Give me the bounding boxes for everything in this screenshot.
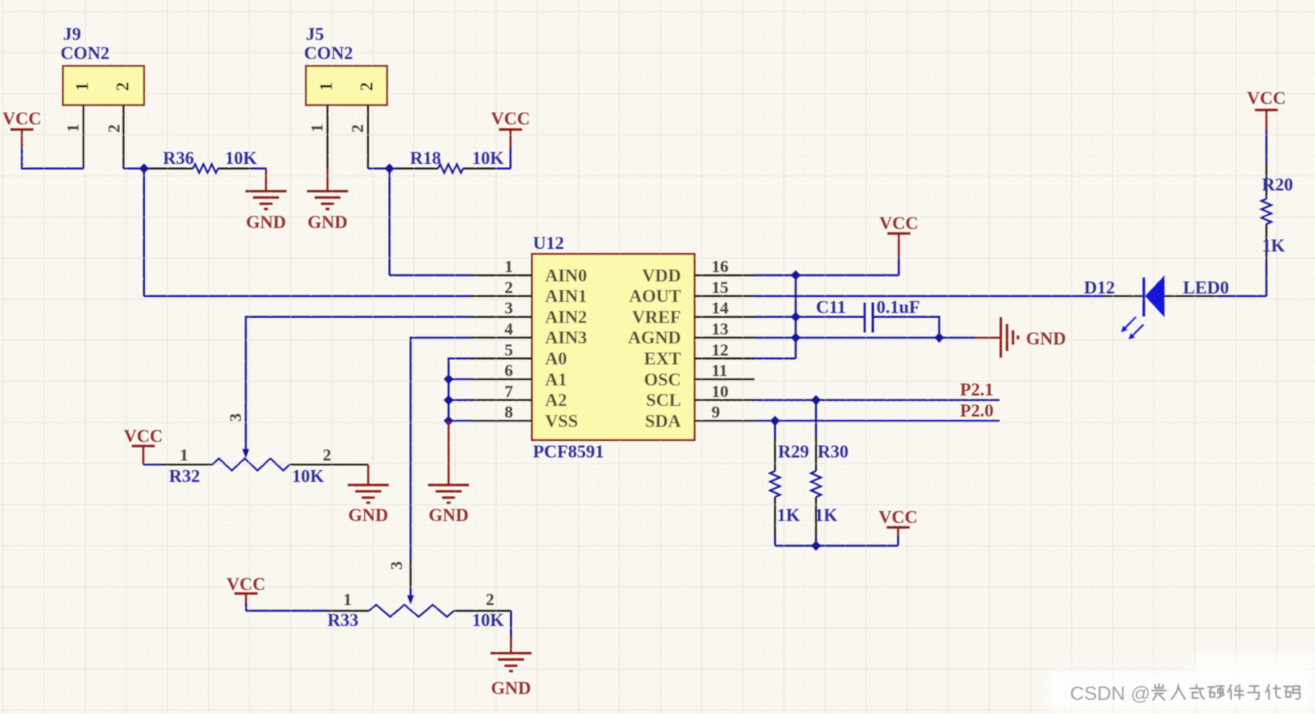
resistor R18 lead left [390,168,397,170]
svg-text:CON2: CON2 [304,43,353,63]
U12 pin 8 (VSS) [472,420,533,422]
svg-text:12: 12 [712,340,729,359]
U12 pin 9 (SDA) [695,420,755,422]
svg-text:R18: R18 [410,148,441,168]
svg-text:10K: 10K [225,148,257,168]
R33 lead left [246,610,328,612]
U12 pin 14 (VREF) [695,316,755,318]
svg-text:GND: GND [348,505,388,525]
LED light arrow 2 [1132,325,1144,337]
svg-text:SDA: SDA [645,411,681,431]
wire pullup rail [775,545,898,547]
svg-text:A0: A0 [545,349,567,369]
wire junction down to AIN1 row [143,169,145,297]
wire A1 net [449,378,472,380]
svg-text:SCL: SCL [646,390,681,410]
U12 pin 13 (AGND) [695,337,755,339]
connector J9 body [63,66,144,105]
wire AOUT net [755,295,1105,297]
svg-text:11: 11 [712,361,728,380]
wire VSS net [449,420,472,422]
svg-text:VREF: VREF [632,307,681,327]
svg-text:1: 1 [64,124,83,133]
svg-text:9: 9 [712,403,721,422]
svg-text:R20: R20 [1262,174,1293,194]
svg-text:1: 1 [308,124,327,133]
svg-text:1K: 1K [777,505,800,525]
svg-text:5: 5 [505,340,514,359]
svg-text:3: 3 [387,561,406,570]
junction VREF [791,312,801,322]
svg-text:P2.1: P2.1 [960,380,994,400]
power bus vertical wire [795,275,797,358]
wire AIN3 net [411,338,472,560]
svg-text:2: 2 [357,82,377,91]
svg-text:R30: R30 [818,442,849,462]
svg-text:10: 10 [712,382,729,401]
svg-text:PCF8591: PCF8591 [533,442,604,462]
svg-text:AIN2: AIN2 [545,307,587,327]
svg-text:VCC: VCC [491,109,530,129]
power VCC (R18) [510,148,512,169]
svg-text:U12: U12 [533,233,564,253]
svg-text:P2.0: P2.0 [960,400,994,420]
svg-text:10K: 10K [292,466,324,486]
svg-text:13: 13 [712,320,729,339]
LED D12 cathode bar [1143,278,1146,317]
svg-text:AIN3: AIN3 [545,328,587,348]
U12 pin 2 (AIN1) [472,295,533,297]
svg-text:2: 2 [348,124,367,133]
svg-text:0.1uF: 0.1uF [877,297,921,317]
R32 wiper arrowhead [242,449,249,458]
wire AIN1 net [144,295,472,297]
LED D12 triangle [1145,275,1165,317]
U12 pin 3 (AIN2) [472,316,533,318]
U12 pin 5 (A0) [472,358,533,360]
potentiometer R32 [213,459,290,471]
wire VDD net [755,274,899,276]
R33 lead right [454,610,511,612]
ground GND (AGND, rotated) [976,337,1000,339]
U12 pin 6 (A1) [472,378,533,380]
junction at J9 pin2 net [139,164,149,174]
svg-text:1: 1 [343,590,352,609]
J9 pin 2 [123,105,125,169]
resistor R36 [193,164,218,173]
ground GND (R33) [510,611,512,636]
svg-text:VCC: VCC [879,213,918,233]
wire junction down to AIN0 row [389,169,391,276]
wire SDA net [755,420,1000,422]
svg-text:6: 6 [505,361,514,380]
wire C11 to AGND net [874,317,939,338]
junction at J5 pin2 net [385,164,395,174]
wire J5 pin2 to junction [368,168,390,170]
svg-text:OSC: OSC [644,369,681,389]
svg-text:C11: C11 [816,297,846,317]
junction C11/AGND [934,333,944,343]
resistor R18 [438,164,463,173]
U12 pin 15 (AOUT) [695,295,755,297]
svg-text:1K: 1K [815,505,838,525]
wire EXT net [755,358,796,360]
svg-text:GND: GND [246,212,286,232]
R29 lead bottom [774,497,776,537]
svg-text:J9: J9 [63,24,81,44]
svg-text:VSS: VSS [545,411,578,431]
svg-text:4: 4 [505,320,514,339]
svg-text:VCC: VCC [1247,88,1286,108]
J5 pin 1 [327,105,329,169]
U12 pin 4 (AIN3) [472,337,533,339]
U12 pin 11 (OSC) [695,378,755,380]
svg-text:R32: R32 [169,466,200,486]
resistor R20 [1261,199,1271,224]
ground GND (R32) [367,465,369,486]
watermark CJK glyphs [1152,684,1300,700]
resistor R29 [770,471,780,497]
svg-text:A1: A1 [545,369,567,389]
junction VSS [444,416,454,426]
svg-text:CSDN @: CSDN @ [1070,683,1150,705]
svg-text:GND: GND [429,505,469,525]
connector J5 body [306,66,387,105]
R33 wiper pin stub [410,560,412,588]
resistor R30 [811,471,821,497]
resistor R36 lead right [218,168,250,170]
ground GND (A0/A1/A2/VSS) [448,421,450,485]
svg-text:16: 16 [712,257,729,276]
svg-text:VCC: VCC [124,426,163,446]
resistor R36 lead left [144,168,151,170]
svg-text:2: 2 [113,82,133,91]
J5 pin 2 [367,105,369,169]
svg-text:VCC: VCC [879,507,918,527]
svg-text:2: 2 [323,445,332,464]
wire AOUT to LED (pin segment) [1104,295,1143,297]
U12 pin 10 (SCL) [695,399,755,401]
svg-text:A2: A2 [545,390,567,410]
R32 lead right [290,464,369,466]
svg-text:GND: GND [308,212,348,232]
svg-text:CON2: CON2 [61,43,110,63]
svg-text:2: 2 [105,124,124,133]
svg-text:2: 2 [486,590,495,609]
svg-text:AIN1: AIN1 [545,286,587,306]
R20 lead top [1265,131,1267,164]
junction A2 [444,395,454,405]
U12 pin 1 (AIN0) [472,274,533,276]
LED light arrow 1 [1124,317,1136,329]
svg-text:AIN0: AIN0 [545,265,587,285]
wire VREF net [755,316,865,318]
svg-text:1: 1 [505,257,514,276]
ground GND (J5 pin1) [327,169,329,192]
svg-text:GND: GND [491,678,531,698]
IC U12 body [532,254,695,440]
U12 pin 12 (EXT) [695,358,755,360]
wire VCC to J9 pin1 [22,148,84,169]
wire AGND net [755,337,977,339]
svg-text:8: 8 [505,403,514,422]
svg-text:1K: 1K [1262,235,1285,255]
wire A2 net [449,399,472,401]
junction SCL/R30 [811,395,821,405]
R33 wiper arrowhead [407,595,414,604]
svg-text:1: 1 [180,445,189,464]
R29 lead top [774,421,776,437]
svg-text:EXT: EXT [644,349,681,369]
junction A1 [444,374,454,384]
svg-text:15: 15 [712,278,729,297]
U12 pin 16 (VDD) [695,274,755,276]
svg-text:10K: 10K [472,148,504,168]
R30 lead top [815,400,817,437]
svg-text:14: 14 [712,299,730,318]
svg-text:2: 2 [505,278,514,297]
svg-text:VDD: VDD [642,265,681,285]
wire AIN0 net [390,274,472,276]
svg-text:VCC: VCC [2,109,41,129]
svg-text:R36: R36 [163,148,194,168]
R32 lead left [143,464,162,466]
svg-text:LED0: LED0 [1183,277,1229,297]
potentiometer R33 [369,605,454,617]
wire SCL net [755,399,1000,401]
J9 pin 1 [83,105,85,169]
svg-text:AGND: AGND [628,328,681,348]
svg-text:3: 3 [226,413,245,422]
capacitor C11 [864,303,866,333]
svg-text:7: 7 [505,382,514,401]
ground GND (R36) [265,169,267,192]
junction AGND [791,333,801,343]
svg-text:GND: GND [1026,328,1066,348]
junction VDD [791,270,801,280]
junction pullup rail [811,541,821,551]
svg-text:VCC: VCC [227,574,266,594]
svg-text:1: 1 [72,82,92,91]
resistor R18 lead right [463,168,495,170]
wire AIN2 net [246,317,472,450]
R20 lead bottom [1265,224,1267,262]
svg-text:R29: R29 [778,442,809,462]
power VCC (pullups) [897,536,899,546]
svg-text:R33: R33 [328,610,359,630]
wire LED to R20 [1219,295,1267,297]
svg-text:AOUT: AOUT [629,286,681,306]
wire J9 pin2 to junction [124,168,145,170]
power VCC (VDD) [898,257,900,275]
svg-text:J5: J5 [306,24,324,44]
U12 pin 7 (A2) [472,399,533,401]
svg-text:D12: D12 [1084,277,1115,297]
LED D12 anode pin [1165,295,1219,297]
svg-text:10K: 10K [472,610,504,630]
junction SDA/R29 [770,416,780,426]
wire A0 net [449,359,472,422]
power VCC (R20) [1265,110,1267,131]
svg-text:1: 1 [316,82,336,91]
R30 lead bottom [815,497,817,537]
svg-text:3: 3 [505,299,514,318]
